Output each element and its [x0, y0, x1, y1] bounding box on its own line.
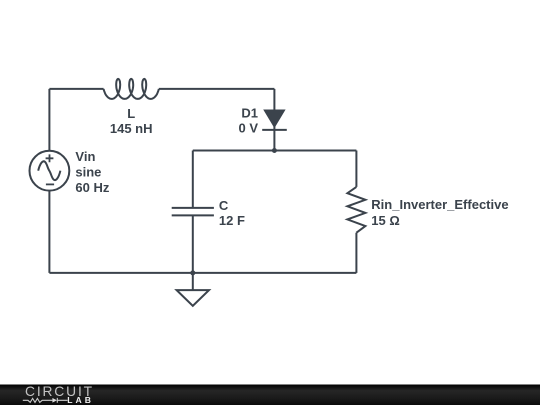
svg-text:C: C — [219, 198, 229, 213]
logo diode triangle — [52, 398, 57, 403]
logo diode bar and wire to LAB — [57, 398, 67, 403]
ground symbol stub — [192, 273, 194, 290]
junction dot ground node — [190, 270, 195, 275]
diode D1 triangle — [263, 110, 285, 129]
svg-text:145 nH: 145 nH — [110, 121, 153, 136]
svg-text:12 F: 12 F — [219, 213, 245, 228]
wire capacitor bottom lead — [192, 215, 194, 273]
wire bottom horizontal — [49, 272, 356, 274]
svg-text:60 Hz: 60 Hz — [75, 180, 109, 195]
svg-text:sine: sine — [75, 164, 101, 179]
svg-text:D1: D1 — [241, 106, 258, 121]
inductor L coil — [104, 79, 159, 99]
voltage source sine wave — [38, 161, 60, 180]
junction dot diode/mid-wire node — [272, 148, 277, 153]
wire top horizontal to diode column — [159, 88, 275, 90]
voltage source plus sign — [46, 154, 55, 184]
voltage source Vin circle — [30, 151, 70, 191]
wire capacitor top lead — [192, 151, 194, 208]
ground symbol triangle — [177, 290, 209, 306]
wire right column lower — [355, 233, 357, 273]
wire diode column vertical — [273, 89, 275, 151]
wire left column upper — [48, 89, 50, 151]
wire top-left horizontal — [49, 88, 103, 90]
svg-text:Rin_Inverter_Effective: Rin_Inverter_Effective — [371, 197, 508, 212]
svg-text:15 Ω: 15 Ω — [371, 213, 400, 228]
wire left column lower — [48, 191, 50, 273]
capacitor C bottom plate — [172, 214, 214, 216]
logo schematic line: resistor zigzag — [23, 398, 68, 403]
diode D1 cathode bar — [262, 129, 287, 131]
svg-text:0 V: 0 V — [238, 121, 258, 136]
svg-text:Vin: Vin — [75, 149, 95, 164]
footer bar — [0, 385, 540, 405]
svg-text:LAB: LAB — [67, 395, 94, 405]
resistor Rin_Inverter_Effective zigzag — [347, 187, 365, 233]
wire mid horizontal — [193, 150, 357, 152]
capacitor C top plate — [172, 207, 214, 209]
svg-text:L: L — [127, 106, 135, 121]
voltage source minus sign — [46, 183, 54, 185]
wire right column upper — [355, 151, 357, 187]
